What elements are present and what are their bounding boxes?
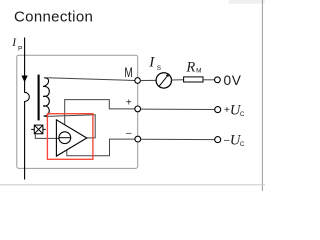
page chrome: top-right light band — [229, 0, 266, 4]
wire: chord through hall-drive circle — [59, 137, 71, 139]
svg-text:+: + — [126, 98, 132, 109]
svg-text:P: P — [18, 45, 23, 52]
wire: winding bottom to op-amp output — [47, 115, 95, 138]
secondary compensation winding L1 (4 loops) — [43, 78, 49, 117]
arrowhead: primary current direction (down) — [22, 76, 28, 82]
terminal + (positive supply pin) — [135, 106, 141, 112]
svg-text:I: I — [148, 54, 155, 70]
page chrome: right vertical rule — [262, 0, 263, 191]
wire: op-amp negative supply to - terminal — [67, 139, 135, 156]
label -U_C — [224, 132, 245, 148]
terminal +U_C (positive supply node) — [215, 107, 221, 113]
hall-drive circle inside op-amp — [59, 132, 71, 144]
wire: op-amp positive supply to + terminal — [65, 100, 135, 125]
wire: ammeter to resistor R_M — [171, 79, 183, 81]
wire: primary conductor with single turn — [25, 38, 30, 180]
resistor R_M (measuring resistor) — [184, 77, 203, 82]
svg-text:S: S — [157, 65, 161, 72]
svg-text:C: C — [240, 111, 245, 118]
wire: terminal M to ammeter — [140, 79, 156, 81]
svg-text:Connection: Connection — [14, 9, 93, 26]
label I_P (primary current) — [11, 37, 23, 52]
label I_S (secondary current) — [148, 54, 161, 72]
wire: - terminal to -U_C supply — [141, 138, 215, 140]
terminal 0V (node 0V) — [215, 77, 221, 83]
ammeter (circle with arrow) — [156, 73, 171, 88]
red highlight box around amplifier — [47, 114, 93, 160]
wire: + terminal to +U_C supply — [141, 108, 215, 110]
terminal - (negative supply pin) — [135, 136, 141, 142]
op-amp U1 (triangle) — [56, 120, 86, 156]
svg-text:0V: 0V — [224, 73, 242, 88]
wire: resistor R_M to 0V terminal — [203, 79, 214, 81]
page chrome: bottom horizontal rule — [0, 184, 265, 185]
svg-text:C: C — [240, 141, 245, 148]
svg-text:M: M — [124, 65, 132, 80]
svg-text:R: R — [185, 60, 195, 76]
wire: Hall element to amplifier input — [35, 134, 59, 139]
wire: winding top to terminal M — [47, 78, 135, 81]
label R_M — [185, 60, 201, 76]
svg-text:M: M — [196, 68, 201, 75]
svg-text:–: – — [126, 128, 132, 139]
transducer housing outline — [17, 55, 138, 168]
label +U_C — [224, 102, 245, 118]
terminal M (node M) — [135, 78, 141, 84]
magnetic core bar — [38, 75, 40, 121]
Hall element X1 (crossed box with side leads) — [31, 125, 46, 134]
terminal -U_C (negative supply node) — [215, 137, 221, 143]
